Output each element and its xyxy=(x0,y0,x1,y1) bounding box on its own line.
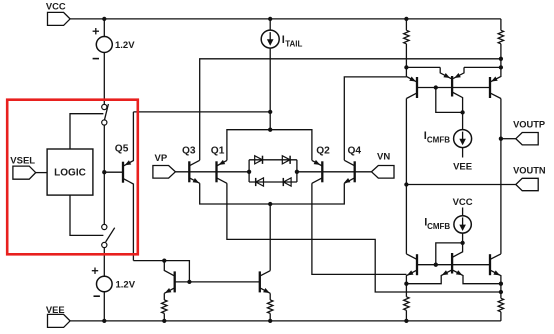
svg-text:VOUTN: VOUTN xyxy=(513,165,546,175)
wire ICMFB bottom to tap xyxy=(462,233,464,243)
wire LOGIC to switch S2 control xyxy=(70,195,103,235)
svg-text:CMFB: CMFB xyxy=(427,136,450,145)
svg-text:1.2V: 1.2V xyxy=(115,40,135,51)
wire mirror base rail xyxy=(175,281,260,283)
VN flag xyxy=(372,166,395,179)
transistor QT3 xyxy=(489,77,491,98)
wire VEE bottom rail xyxy=(70,320,501,322)
wire battery V1 to switch S1 xyxy=(103,53,105,105)
resistor R4 xyxy=(500,284,502,299)
transistor QT2 dual emitter xyxy=(451,76,453,97)
transistor QT1 xyxy=(416,77,418,98)
svg-text:1.2V: 1.2V xyxy=(116,279,136,290)
VOUTP flag xyxy=(501,138,516,140)
wire battery V2 to VEE rail xyxy=(103,292,105,321)
wire QT1 collector down VOUTN bus xyxy=(405,99,407,254)
svg-text:VEE: VEE xyxy=(46,304,65,315)
svg-text:VOUTP: VOUTP xyxy=(513,119,545,129)
svg-text:Q2: Q2 xyxy=(316,146,330,157)
wire NPN tail to mirror M2 xyxy=(269,204,271,271)
svg-text:Q3: Q3 xyxy=(182,146,196,157)
wire diode top row xyxy=(249,159,297,161)
junction dots xyxy=(102,17,106,21)
svg-text:TAIL: TAIL xyxy=(285,40,302,49)
resistor R1 xyxy=(405,19,407,30)
current source ICMFB top xyxy=(462,112,464,129)
current source ITAIL xyxy=(269,19,271,30)
VP flag xyxy=(153,166,176,179)
wire VCC top rail xyxy=(70,18,501,20)
wire LOGIC to switch S1 control xyxy=(70,114,103,149)
logic block U1 xyxy=(47,149,93,195)
resistor R2 xyxy=(500,19,502,30)
switch S2 xyxy=(102,224,107,229)
wire S1 to node VB xyxy=(103,125,105,224)
wire VN to bases Q2 Q4 xyxy=(297,171,372,173)
wire diode box left xyxy=(248,160,250,182)
svg-text:VP: VP xyxy=(155,153,168,164)
svg-text:VCC: VCC xyxy=(46,1,66,12)
svg-text:VCC: VCC xyxy=(453,197,473,208)
VOUTN flag xyxy=(406,184,515,186)
wire Q2 collector to node LB xyxy=(312,183,407,274)
wire diode box right xyxy=(296,160,298,182)
svg-text:VEE: VEE xyxy=(453,161,472,172)
battery V1 1.2V xyxy=(96,37,112,53)
battery V2 1.2V xyxy=(97,276,113,292)
wire Q5 emitter to ITAIL node xyxy=(133,111,270,113)
resistor R3 xyxy=(405,284,407,297)
wire VP to bases Q3 Q1 xyxy=(175,171,249,173)
svg-text:Q1: Q1 xyxy=(211,146,225,157)
wire S2 to battery V2 xyxy=(103,248,105,277)
wire top emitter node right xyxy=(464,66,501,68)
wire top emitter node left xyxy=(406,66,440,68)
wire Q3 collector to node RT xyxy=(200,59,501,161)
svg-text:Q4: Q4 xyxy=(348,146,362,157)
wire Q4 collector to node LT xyxy=(344,77,406,160)
wire ITAIL to PNP tail rail xyxy=(269,48,271,130)
wire VSEL to LOGIC xyxy=(36,172,47,174)
wire NPN tail rail xyxy=(200,183,345,204)
wire PNP tail rail xyxy=(227,130,312,161)
wire Q1 collector to node RB xyxy=(227,183,501,292)
wire ICMFB to VEE xyxy=(462,148,464,158)
VCC flag xyxy=(48,12,71,25)
svg-text:VSEL: VSEL xyxy=(10,156,35,167)
transistor QB1 xyxy=(416,254,418,275)
wire base tap loop top xyxy=(436,88,463,113)
wire base tap loop bottom xyxy=(436,243,463,265)
diode D3 xyxy=(256,178,264,186)
wire VCC to battery V1 xyxy=(103,19,105,37)
diode D4 xyxy=(283,178,291,186)
wire top cluster base rail xyxy=(417,87,490,89)
wire QT3 collector down VOUTP bus xyxy=(500,99,502,254)
resistor RM1 xyxy=(163,293,165,300)
switch S1 xyxy=(102,104,107,109)
resistor RM2 xyxy=(269,293,271,300)
diode D1 xyxy=(255,156,263,164)
wire bottom cluster base rail xyxy=(417,264,490,266)
transistor M1 diode-connected xyxy=(174,271,176,292)
current source ICMFB bottom xyxy=(462,208,464,216)
svg-text:CMFB: CMFB xyxy=(427,222,450,231)
svg-text:VN: VN xyxy=(377,151,390,162)
svg-text:LOGIC: LOGIC xyxy=(54,168,86,179)
transistor QB2 dual emitter xyxy=(451,253,453,274)
highlight box power-down section xyxy=(7,100,138,255)
wire diode bottom row xyxy=(249,181,297,183)
VEE flag xyxy=(48,314,71,327)
wire Q5 collector to mirror M1 xyxy=(133,260,164,262)
svg-text:Q5: Q5 xyxy=(115,143,129,154)
transistor QB3 xyxy=(489,254,491,275)
transistor M2 tail xyxy=(259,271,261,292)
diode D2 xyxy=(282,156,290,164)
wire M1 collector-base loop xyxy=(164,261,189,282)
VSEL flag xyxy=(13,166,36,179)
